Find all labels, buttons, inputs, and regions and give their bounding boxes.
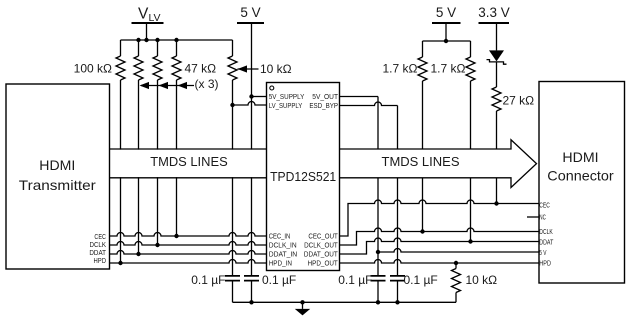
junction dot DDAT pullup <box>136 252 140 256</box>
resistor R4 47k: top lead <box>176 40 178 56</box>
junction dot CEC pullup <box>174 234 178 238</box>
resistor R6 1.7k body <box>418 57 427 81</box>
resistor R3 47k body <box>153 56 162 80</box>
resistor R3 47k: top lead <box>157 40 159 56</box>
capacitor C1 0.1uF plates <box>225 276 240 281</box>
junction dot 5V_SUPPLY <box>249 94 253 98</box>
node VLV: supply bar <box>132 22 164 24</box>
wire 5V_OUT pin to vertical <box>340 96 379 98</box>
resistor R9 10k top lead from HPD row <box>455 263 457 269</box>
wire C2 to ground rail <box>251 281 253 302</box>
resistor R7 1.7k body <box>466 57 475 81</box>
junction dots on VLV bus <box>136 38 140 42</box>
TMDS band right arrow (white fill + outline) <box>340 140 537 188</box>
resistor R4 47k body <box>172 56 181 80</box>
svg-text:27 kΩ: 27 kΩ <box>503 94 535 108</box>
wire CEC row left with hops <box>110 233 267 237</box>
svg-text:HDMI: HDMI <box>39 157 75 173</box>
svg-text:TPD12S521: TPD12S521 <box>270 170 336 184</box>
svg-text:ESD_BYP: ESD_BYP <box>309 101 338 110</box>
annotation arrow line 10k <box>238 68 259 70</box>
svg-text:1.7 kΩ: 1.7 kΩ <box>431 62 466 76</box>
svg-text:DDAT_OUT: DDAT_OUT <box>304 250 338 259</box>
svg-text:DDAT: DDAT <box>539 237 553 246</box>
resistor R1 100k body <box>116 56 125 80</box>
svg-text:Transmitter: Transmitter <box>19 177 96 193</box>
resistor R5 10k body <box>228 56 237 80</box>
junction dot 5V row <box>376 250 380 254</box>
wire diode cathode to R8 <box>496 62 498 87</box>
wire DCLK_OUT to DCLK row with hops <box>340 228 540 245</box>
svg-text:(x 3): (x 3) <box>195 77 219 91</box>
svg-text:0.1 µF: 0.1 µF <box>262 273 296 287</box>
wire NC stub <box>527 216 539 218</box>
wire C1 to ground rail <box>232 281 234 302</box>
svg-text:LV: LV <box>149 12 161 24</box>
svg-text:5 V: 5 V <box>539 248 546 257</box>
wire DCLK row left with hops <box>110 242 267 246</box>
diode D1 cathode bar <box>487 60 507 65</box>
svg-text:10 kΩ: 10 kΩ <box>466 273 498 287</box>
junction dot HPD pullup <box>118 261 122 265</box>
wire HPD row left with hops <box>110 260 267 264</box>
pin 1 indicator circle <box>270 86 274 90</box>
junction dot DDAT 1.7k <box>468 239 472 243</box>
wire R8 bottom lead to CEC row <box>496 111 498 204</box>
svg-text:V: V <box>138 6 149 23</box>
TMDS band left edges <box>110 149 267 178</box>
svg-text:DCLK_IN: DCLK_IN <box>269 241 297 250</box>
resistor R6 1.7k top lead <box>422 41 424 57</box>
annotation arrowhead at R4 <box>178 82 188 89</box>
wire R4 bottom lead to CEC <box>176 80 178 236</box>
wire HPD_OUT row with hops <box>340 260 540 264</box>
svg-text:NC: NC <box>539 213 546 222</box>
svg-text:47 kΩ: 47 kΩ <box>185 62 217 76</box>
svg-text:HPD: HPD <box>94 256 107 265</box>
resistor R7 1.7k top lead <box>470 41 472 57</box>
svg-text:TMDS LINES: TMDS LINES <box>382 154 460 169</box>
wire 5V_OUT vertical to 5V row and cap C3 <box>377 97 379 276</box>
node 3.3V: supply bar <box>479 22 510 24</box>
wire R3 bottom lead to DCLK <box>157 80 159 245</box>
wire ESD_BYP pin with hop to vertical <box>340 102 398 105</box>
TPD12S521 chip box U1 <box>267 83 340 271</box>
svg-text:5V_OUT: 5V_OUT <box>312 92 338 101</box>
svg-text:5V_SUPPLY: 5V_SUPPLY <box>269 92 305 101</box>
wire DDAT_OUT to DDAT row with hops <box>340 238 540 254</box>
wire 5V right bus <box>423 40 471 42</box>
svg-text:CEC_OUT: CEC_OUT <box>308 232 338 241</box>
svg-text:CEC: CEC <box>539 201 550 210</box>
wire ESD_BYP vertical to cap C4 <box>397 106 399 276</box>
node 5V right: supply bar <box>432 22 461 24</box>
svg-text:10 kΩ: 10 kΩ <box>260 62 292 76</box>
junction dot CEC 27k <box>494 201 498 205</box>
resistor R2 47k: top lead <box>138 40 140 56</box>
junction dot HPD 10k <box>454 261 458 265</box>
svg-text:5 V: 5 V <box>436 5 456 20</box>
TMDS band left (white fill covers wires) <box>110 150 267 178</box>
diode D1 schottky: anode triangle <box>489 50 504 61</box>
wire R1 bottom lead to HPD <box>120 80 122 263</box>
svg-text:HDMI: HDMI <box>562 149 598 165</box>
wire R7 bottom lead to DDAT row <box>470 81 472 242</box>
resistor R5 10k: top lead <box>232 40 234 56</box>
resistor R9 10k body <box>452 269 461 293</box>
ground symbol stem <box>302 302 304 309</box>
wire LV_SUPPLY pin with hop <box>233 102 267 105</box>
wire R6 bottom lead to DCLK row <box>422 81 424 232</box>
capacitor C3 0.1uF plates <box>371 276 386 281</box>
wire DDAT row left with hops <box>110 251 267 254</box>
wire 5V left vertical to 5V_SUPPLY and cap C2 <box>251 23 253 275</box>
svg-text:LV_SUPPLY: LV_SUPPLY <box>269 101 303 110</box>
capacitor C4 0.1uF plates <box>390 276 405 281</box>
wire R5 bottom lead to LV_SUPPLY and cap C1 <box>232 80 234 275</box>
svg-text:HPD_IN: HPD_IN <box>269 259 292 268</box>
annotation arrowhead at R2 <box>140 82 150 89</box>
wire CEC_OUT to CEC row with hops <box>340 200 540 236</box>
ground symbol triangle <box>295 309 310 316</box>
wire R2 bottom lead to DDAT <box>138 80 140 254</box>
annotation arrowhead at R3 <box>159 82 169 89</box>
svg-text:5 V: 5 V <box>240 5 260 20</box>
node 5V left: supply bar <box>237 22 264 24</box>
wire C3 to ground rail <box>377 281 379 302</box>
junction dots ground rail <box>249 300 253 304</box>
svg-text:1.7 kΩ: 1.7 kΩ <box>383 62 418 76</box>
wire 5V_SUPPLY pin <box>252 96 267 98</box>
svg-text:CEC_IN: CEC_IN <box>269 232 291 241</box>
annotation arrowhead 10k <box>238 65 248 72</box>
wire 3.3V stem to diode anode <box>496 23 498 50</box>
wire ground rail <box>233 301 457 303</box>
resistor R8 27k body <box>492 87 501 111</box>
svg-text:HPD: HPD <box>539 259 551 268</box>
HDMI Connector box <box>539 82 625 284</box>
wire R9 bottom lead to ground rail <box>455 293 457 303</box>
svg-text:DCLK_OUT: DCLK_OUT <box>304 241 338 250</box>
svg-text:3.3 V: 3.3 V <box>478 5 510 20</box>
resistor R2 47k body <box>134 56 143 80</box>
wire 5V row to connector with hop <box>378 249 539 253</box>
annotation arrow line (x 3) <box>141 85 194 87</box>
junction dot DCLK pullup <box>155 243 159 247</box>
junction dot 5V right bus <box>444 39 448 43</box>
svg-text:0.1 µF: 0.1 µF <box>338 273 372 287</box>
svg-text:100 kΩ: 100 kΩ <box>74 62 112 76</box>
svg-text:Connector: Connector <box>547 168 614 184</box>
wire VLV bus <box>121 39 233 41</box>
svg-text:0.1 µF: 0.1 µF <box>404 273 438 287</box>
junction dot DCLK 1.7k <box>420 229 424 233</box>
HDMI Transmitter box <box>6 84 110 269</box>
resistor R1 100k: top lead <box>120 40 122 56</box>
capacitor C2 0.1uF plates <box>244 276 259 281</box>
wire C4 to ground rail <box>397 281 399 302</box>
svg-text:0.1 µF: 0.1 µF <box>191 273 225 287</box>
svg-text:DCLK: DCLK <box>539 227 553 236</box>
junction dot LV_SUPPLY <box>230 103 234 107</box>
svg-text:TMDS LINES: TMDS LINES <box>150 154 228 169</box>
svg-text:DDAT_IN: DDAT_IN <box>269 250 298 259</box>
wire 5V right stem <box>445 23 447 41</box>
wire VLV stem <box>146 23 148 40</box>
svg-text:HPD_OUT: HPD_OUT <box>308 259 338 268</box>
